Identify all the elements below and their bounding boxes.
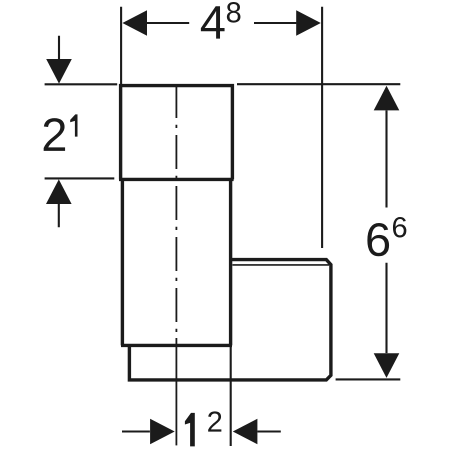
- label 21 superscript 1: [70, 114, 77, 136]
- arrowhead 48 right: [296, 10, 321, 36]
- centerline dash-dot: [175, 84, 177, 338]
- arrowhead 21 up: [46, 179, 72, 204]
- dim 21: bottom extension: [45, 177, 115, 179]
- label 21 digit 2: [44, 118, 65, 151]
- arrowhead 12 right: [150, 419, 175, 445]
- dim 21: top extension: [45, 83, 118, 85]
- arrowhead 66 up: [374, 86, 400, 111]
- upper socket of fitting: [121, 86, 233, 180]
- dim 66: bottom extension: [336, 378, 401, 380]
- dim 12: tails: [122, 430, 281, 432]
- body left edge: [121, 179, 124, 345]
- label 12 digit 1: [185, 413, 195, 447]
- branch socket inner line: [233, 264, 330, 266]
- dim 21: arrow tails: [58, 36, 60, 228]
- centerline solid extension: [175, 338, 177, 445]
- shoulder line: [121, 344, 232, 347]
- arrowhead 12 left: [233, 419, 258, 445]
- socket joint line: [119, 178, 234, 181]
- dim 48: tails: [147, 22, 297, 24]
- dim 48: left extension: [120, 7, 122, 84]
- label 66 superscript 6: [393, 217, 406, 238]
- label 12 superscript 2: [208, 411, 221, 431]
- arrowhead 66 down: [374, 353, 400, 378]
- dim 12: right extension: [230, 345, 232, 446]
- arrowhead 21 down: [46, 59, 72, 84]
- dim 66: tails: [385, 111, 387, 354]
- arrowhead 48 left: [122, 10, 147, 36]
- label 66 digit 6: [367, 223, 389, 256]
- label 48 superscript 8: [227, 2, 241, 23]
- dim 48: right extension: [321, 7, 323, 248]
- branch outlet and bottom spigot outline: [129, 260, 331, 380]
- label 48 digit 4: [201, 6, 225, 38]
- dim 66: top extension: [237, 83, 400, 85]
- body right edge: [229, 179, 232, 345]
